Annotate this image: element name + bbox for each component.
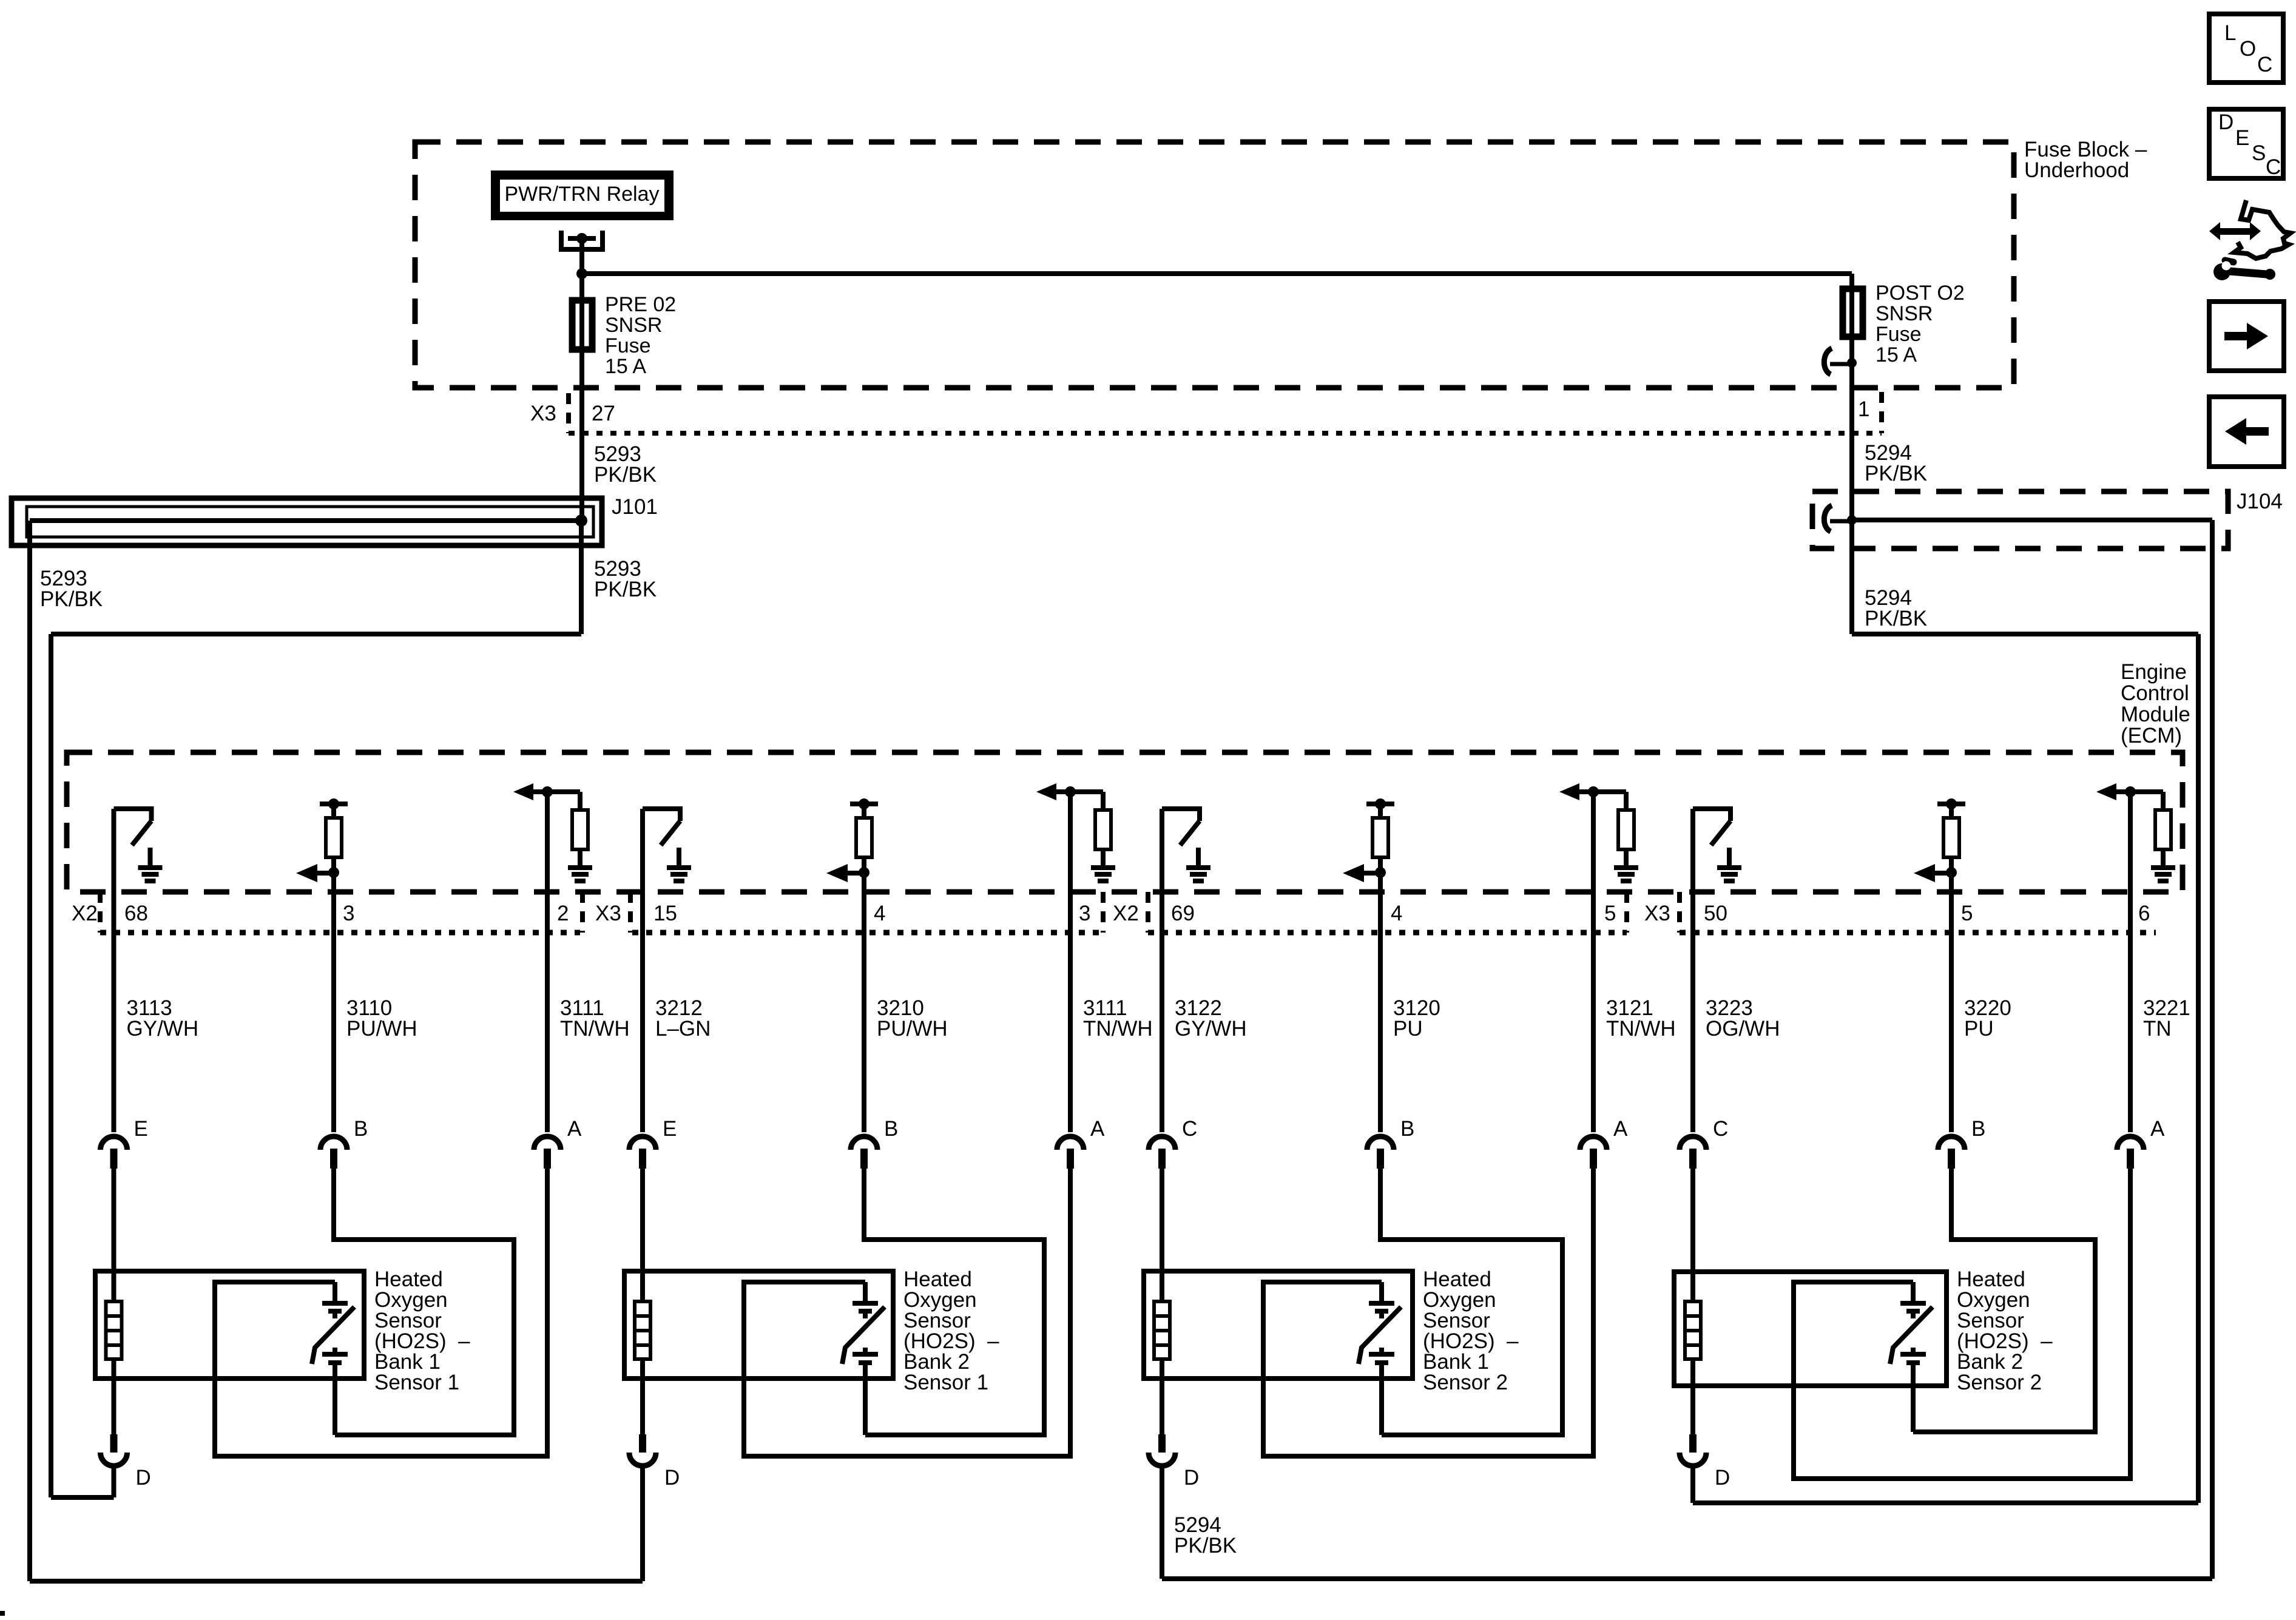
svg-text:2: 2 [557,902,569,925]
svg-text:S: S [2252,141,2266,165]
svg-text:Sensor 2: Sensor 2 [1423,1371,1508,1394]
svg-text:27: 27 [592,402,615,425]
svg-text:E: E [134,1117,148,1141]
svg-text:A: A [1090,1117,1105,1141]
svg-text:X2: X2 [1113,902,1139,925]
svg-text:PK/BK: PK/BK [40,587,103,611]
svg-text:L: L [2224,21,2236,45]
svg-text:O: O [2240,37,2256,61]
svg-text:D: D [136,1466,151,1490]
svg-text:69: 69 [1171,902,1195,925]
svg-text:PU: PU [1964,1017,1994,1041]
svg-text:J104: J104 [2237,490,2283,513]
svg-text:1: 1 [1858,397,1869,421]
svg-text:C: C [2266,155,2281,179]
svg-text:POST O2: POST O2 [1876,282,1965,305]
svg-text:15 A: 15 A [1876,343,1917,366]
svg-text:PWR/TRN Relay: PWR/TRN Relay [504,183,659,206]
svg-text:Fuse: Fuse [605,334,651,357]
svg-text:PK/BK: PK/BK [1174,1534,1237,1558]
svg-text:B: B [354,1117,368,1141]
svg-text:X2: X2 [72,902,98,925]
svg-text:Sensor 2: Sensor 2 [1957,1371,2042,1394]
svg-text:PK/BK: PK/BK [1865,607,1927,630]
svg-text:B: B [884,1117,898,1141]
svg-text:PK/BK: PK/BK [594,463,657,487]
svg-text:D: D [2218,110,2234,134]
svg-text:GY/WH: GY/WH [1175,1017,1247,1041]
svg-text:X3: X3 [530,402,556,425]
svg-text:C: C [2257,53,2272,76]
svg-text:X3: X3 [595,902,621,925]
svg-text:D: D [1715,1466,1730,1490]
svg-text:Sensor 1: Sensor 1 [903,1371,988,1394]
svg-text:TN/WH: TN/WH [560,1017,630,1041]
svg-text:A: A [2150,1117,2165,1141]
svg-text:3: 3 [343,902,354,925]
svg-text:TN/WH: TN/WH [1606,1017,1676,1041]
svg-text:C: C [1182,1117,1197,1141]
svg-text:B: B [1400,1117,1414,1141]
svg-text:6: 6 [2138,902,2150,925]
svg-text:50: 50 [1704,902,1727,925]
svg-text:E: E [2235,126,2249,150]
svg-text:PU: PU [1393,1017,1423,1041]
svg-text:B: B [1971,1117,1985,1141]
svg-text:PU/WH: PU/WH [877,1017,948,1041]
svg-text:TN: TN [2143,1017,2172,1041]
svg-text:SNSR: SNSR [605,314,662,337]
svg-text:TN/WH: TN/WH [1083,1017,1153,1041]
svg-text:C: C [1713,1117,1728,1141]
svg-text:A: A [1613,1117,1628,1141]
svg-text:E: E [663,1117,677,1141]
svg-text:D: D [664,1466,680,1490]
svg-text:Sensor 1: Sensor 1 [374,1371,459,1394]
svg-text:X3: X3 [1644,902,1670,925]
svg-text:(ECM): (ECM) [2121,724,2182,748]
svg-text:5: 5 [1961,902,1973,925]
svg-text:68: 68 [124,902,148,925]
svg-text:15: 15 [653,902,677,925]
svg-text:GY/WH: GY/WH [127,1017,199,1041]
svg-text:A: A [567,1117,582,1141]
svg-text:Fuse: Fuse [1876,323,1922,346]
svg-text:PK/BK: PK/BK [594,578,657,601]
svg-text:PRE 02: PRE 02 [605,293,676,316]
svg-text:4: 4 [1391,902,1402,925]
svg-text:SNSR: SNSR [1876,302,1933,325]
svg-text:3: 3 [1079,902,1090,925]
svg-text:5: 5 [1604,902,1616,925]
svg-text:D: D [1184,1466,1199,1490]
svg-text:15 A: 15 A [605,355,646,378]
svg-text:Engine: Engine [2121,660,2187,684]
svg-text:OG/WH: OG/WH [1706,1017,1780,1041]
svg-text:Control: Control [2121,681,2189,705]
svg-text:J101: J101 [612,495,658,519]
svg-text:4: 4 [874,902,885,925]
svg-text:Module: Module [2121,703,2190,726]
svg-text:Underhood: Underhood [2024,158,2129,182]
svg-text:L–GN: L–GN [655,1017,711,1041]
svg-text:PU/WH: PU/WH [346,1017,417,1041]
svg-text:PK/BK: PK/BK [1865,462,1927,485]
